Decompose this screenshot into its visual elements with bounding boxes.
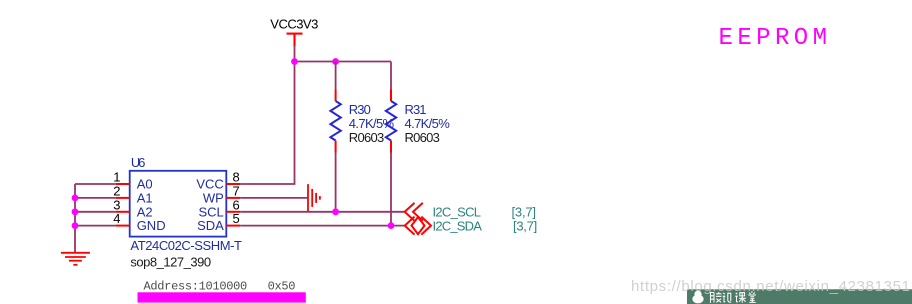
svg-text:R0603: R0603 — [349, 130, 384, 145]
svg-text:A2: A2 — [137, 204, 153, 219]
wire pin3 to bus — [75, 211, 116, 213]
junction bus pin3 — [72, 208, 79, 215]
svg-text:U6: U6 — [131, 155, 146, 170]
wire R30 bottom to SCL — [335, 153, 337, 212]
junction at R30 top — [332, 58, 339, 65]
svg-text:SDA: SDA — [197, 218, 224, 233]
junction bus pin4 — [72, 222, 79, 229]
offpage connector I2C_SCL — [405, 203, 423, 221]
svg-text:5: 5 — [233, 211, 240, 226]
wire pin1 to bus — [75, 183, 116, 185]
pin 4 stub — [116, 225, 130, 227]
junction bus pin2 — [72, 195, 79, 202]
wire VCC stem to top rail — [294, 46, 296, 62]
wire SCL net — [240, 211, 405, 213]
svg-text:1: 1 — [113, 170, 120, 185]
svg-text:GND: GND — [137, 218, 166, 233]
svg-text:R30: R30 — [349, 102, 371, 117]
svg-text:Address:1010000 0x50: Address:1010000 0x50 — [144, 280, 296, 294]
svg-text:I2C_SDA: I2C_SDA — [433, 219, 483, 234]
wire R31 bottom to SDA — [390, 153, 392, 226]
pin 8 stub — [226, 183, 240, 185]
watermark green bar overlay — [687, 289, 912, 304]
resistor R31 — [386, 90, 396, 153]
resistor R30 — [330, 90, 340, 153]
svg-text:R0603: R0603 — [405, 130, 440, 145]
ground symbol WP (rotated) — [308, 184, 320, 212]
pin 7 stub — [226, 197, 240, 199]
op IC U6 body — [130, 171, 227, 237]
svg-text:sop8_127_390: sop8_127_390 — [130, 255, 211, 270]
pin 2 stub — [116, 197, 130, 199]
wire SDA net — [240, 225, 405, 227]
pin 1 stub — [116, 183, 130, 185]
svg-text:4: 4 — [113, 211, 120, 226]
svg-text:AT24C02C-SSHM-T: AT24C02C-SSHM-T — [130, 238, 242, 253]
pin 3 stub — [116, 211, 130, 213]
svg-text:7: 7 — [233, 183, 240, 198]
svg-text:3: 3 — [113, 197, 120, 212]
svg-text:I2C_SCL: I2C_SCL — [433, 205, 482, 220]
svg-text:A1: A1 — [137, 191, 153, 206]
svg-text:8: 8 — [233, 170, 240, 185]
svg-text:[3,7]: [3,7] — [513, 219, 537, 234]
svg-text:VCC3V3: VCC3V3 — [270, 16, 318, 31]
wire R31 top — [390, 62, 392, 90]
wire VCC vertical to pin 8 — [240, 62, 294, 185]
wire WP to ground — [240, 197, 308, 199]
svg-text:[3,7]: [3,7] — [512, 205, 537, 220]
wire left bus vertical — [74, 184, 76, 253]
wire pin4 to bus — [75, 225, 116, 227]
wire R30 top — [335, 62, 337, 90]
watermark green bar — [687, 289, 912, 304]
pin 6 stub — [226, 211, 240, 213]
svg-text:6: 6 — [233, 197, 240, 212]
highlight bar — [138, 292, 306, 302]
wire top rail — [295, 61, 392, 63]
watermark text 腾讯课堂 — [711, 291, 756, 303]
svg-text:VCC: VCC — [196, 177, 223, 192]
pin 5 stub — [226, 225, 240, 227]
svg-text:4.7K/5%: 4.7K/5% — [405, 116, 451, 131]
svg-text:R31: R31 — [405, 102, 427, 117]
svg-text:A0: A0 — [137, 177, 153, 192]
offpage connector I2C_SDA — [405, 217, 431, 235]
svg-text:SCL: SCL — [199, 204, 224, 219]
junction SDA R31 — [388, 222, 395, 229]
watermark penguin icon — [692, 291, 703, 304]
ground symbol left — [61, 253, 90, 265]
junction at VCC stem — [291, 58, 298, 65]
svg-text:2: 2 — [113, 183, 120, 198]
wire pin2 to bus — [75, 197, 116, 199]
power symbol VCC3V3 — [287, 34, 303, 46]
junction SCL R30 — [332, 208, 339, 215]
svg-text:EEPROM: EEPROM — [719, 25, 828, 52]
svg-text:WP: WP — [203, 191, 224, 206]
